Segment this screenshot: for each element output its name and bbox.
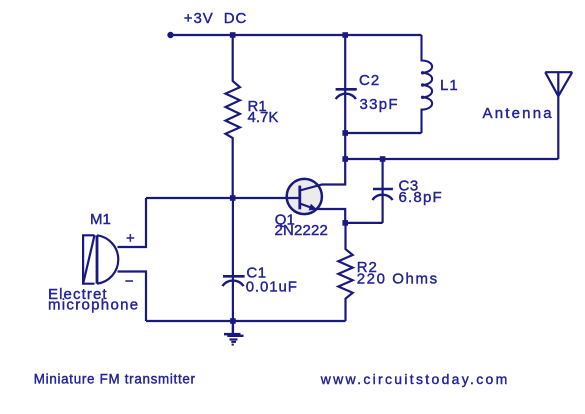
- node: junction ground rail / C1: [230, 318, 236, 324]
- svg-text:33pF: 33pF: [360, 96, 399, 113]
- wire: mic - terminal: [118, 272, 147, 322]
- capacitor C3: [372, 159, 393, 223]
- node: junction rail / collector: [342, 156, 348, 162]
- wire: +3V supply rail: [170, 34, 422, 36]
- svg-text:+3V DC: +3V DC: [184, 10, 247, 27]
- svg-text:microphone: microphone: [48, 297, 139, 314]
- wire: tank bottom to antenna rail: [344, 133, 346, 159]
- ground: [224, 321, 244, 346]
- svg-text:Miniature FM transmitter: Miniature FM transmitter: [34, 372, 196, 387]
- node: junction C2 / +3V rail: [342, 32, 348, 38]
- node: junction base / R1 / C1: [230, 195, 236, 201]
- resistor R2: [338, 223, 352, 321]
- resistor R1: [226, 35, 240, 198]
- svg-text:220 Ohms: 220 Ohms: [357, 270, 439, 287]
- wire: tank bottom rail C2-L1: [345, 132, 421, 134]
- svg-text:www.circuitstoday.com: www.circuitstoday.com: [320, 371, 510, 387]
- inductor L1: [421, 35, 432, 133]
- svg-text:M1: M1: [90, 211, 111, 228]
- node: junction emitter / R2 / C3: [342, 220, 348, 226]
- svg-text:L1: L1: [440, 77, 459, 94]
- wire: mic + terminal: [118, 198, 147, 247]
- wire: base: [146, 197, 299, 199]
- wire: antenna feed rail: [345, 158, 558, 160]
- svg-text:+: +: [126, 230, 135, 247]
- svg-text:6.8pF: 6.8pF: [399, 189, 443, 206]
- svg-text:Antenna: Antenna: [483, 105, 554, 122]
- terminal dot +3V rail left end: [167, 32, 173, 38]
- microphone M1: [83, 235, 118, 283]
- capacitor C1: [222, 198, 244, 321]
- node: junction R1 / +3V rail: [230, 32, 236, 38]
- node: junction tank bottom / C2: [342, 130, 348, 136]
- wire: C3 bottom to emitter: [345, 222, 382, 224]
- svg-text:−: −: [125, 273, 134, 290]
- antenna: [545, 72, 572, 159]
- svg-text:4.7K: 4.7K: [248, 109, 279, 126]
- wire: ground rail: [146, 320, 346, 322]
- transistor Q1: [287, 159, 346, 223]
- svg-text:0.01uF: 0.01uF: [246, 279, 298, 296]
- node: junction rail / C3: [380, 156, 386, 162]
- svg-text:2N2222: 2N2222: [275, 222, 328, 239]
- svg-text:C2: C2: [359, 72, 380, 89]
- capacitor C2: [336, 35, 357, 133]
